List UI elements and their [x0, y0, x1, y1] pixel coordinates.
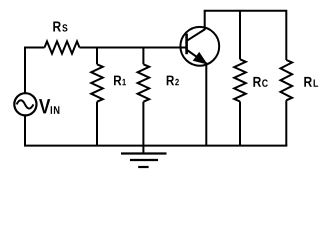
transistor Q1 circle [180, 27, 219, 66]
label RL [304, 77, 318, 87]
transistor Q1 collector [188, 11, 205, 41]
wire: base wire from RS to transistor base bar [80, 47, 188, 49]
transistor Q1 emitter [187, 50, 207, 64]
wire: bottom ground rail [24, 145, 287, 147]
source VIN sine wave [17, 100, 34, 108]
transistor Q1 base bar [185, 34, 188, 55]
resistor RS [45, 41, 80, 53]
resistor RC [234, 59, 246, 101]
resistor RL [281, 60, 293, 100]
wire: top rail from collector to RL with corner [204, 11, 287, 60]
node: R2 top connection wire [142, 47, 144, 65]
wire: left rail from source top to top-left corner [25, 48, 45, 94]
resistor R1 [91, 64, 103, 101]
wire: RL bottom to ground rail [285, 100, 287, 145]
wire: R2 bottom to ground rail and ground stem [142, 102, 144, 154]
wire: RC top connection [239, 11, 241, 60]
source VIN circle [14, 93, 36, 115]
resistor R2 [138, 64, 150, 101]
wire: RC bottom to ground rail [239, 102, 241, 146]
label VIN [39, 99, 59, 114]
wire: source bottom to ground rail [24, 116, 26, 146]
label RC [253, 77, 267, 87]
ground [121, 154, 167, 168]
transistor Q1 emitter arrow [194, 53, 207, 64]
label RS [53, 22, 67, 32]
wire: R1 bottom to ground rail [96, 102, 98, 146]
node: R1 top connection wire [96, 47, 98, 65]
label R1 [114, 76, 126, 86]
label R2 [167, 76, 179, 86]
wire: emitter to ground rail [205, 63, 207, 146]
